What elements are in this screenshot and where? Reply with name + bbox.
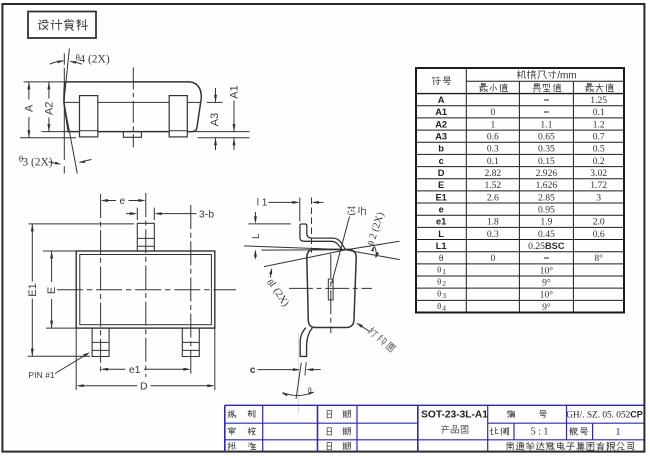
svg-text:SOT-23-3L-A1: SOT-23-3L-A1 (421, 409, 488, 420)
svg-text:2.6: 2.6 (487, 192, 499, 203)
title block row 3: approved / date / company (228, 442, 634, 450)
svg-text:4: 4 (442, 303, 446, 312)
svg-text:E1: E1 (27, 283, 39, 296)
svg-text:0.1: 0.1 (487, 156, 499, 167)
angle theta2 (2X) annotation (366, 210, 387, 258)
dimension e1 (101, 364, 191, 376)
svg-text:A1: A1 (435, 107, 447, 117)
svg-text:1: 1 (490, 119, 495, 130)
table header texts (433, 70, 614, 92)
angle theta4 (2X) annotation, top-left (50, 49, 110, 174)
angle theta1 (2X) annotation (264, 268, 291, 309)
svg-text:0.15: 0.15 (538, 156, 555, 167)
dimension L (244, 212, 345, 259)
svg-text:3.02: 3.02 (590, 168, 607, 179)
side view: lower lead profile (300, 328, 312, 357)
svg-text:E1: E1 (435, 192, 446, 202)
svg-text:L: L (251, 233, 262, 239)
svg-text:9°: 9° (542, 302, 551, 313)
svg-text:θ: θ (308, 386, 312, 395)
title block grid (225, 405, 644, 452)
angle theta3 (2X) annotation, bottom-left (19, 102, 92, 173)
side view: die (chip) (328, 279, 333, 300)
top view: body outline (double line) (76, 251, 215, 328)
svg-text:L: L (438, 229, 444, 239)
top view: lead 1 (bottom-left) (92, 328, 109, 356)
svg-text:2.85: 2.85 (538, 192, 555, 203)
svg-text:0: 0 (490, 253, 495, 264)
svg-text:A3: A3 (209, 113, 221, 126)
svg-text:θ: θ (437, 289, 441, 299)
side view: upper lead (pin 3 profile) (300, 224, 345, 250)
svg-text:2: 2 (442, 279, 446, 288)
svg-text:e1: e1 (436, 217, 446, 227)
title box 设计资料 (design data) (28, 12, 96, 39)
front view: package body outline (64, 82, 201, 132)
svg-text:–: – (544, 107, 550, 118)
front view: parting line (64, 101, 79, 103)
svg-text:θ: θ (439, 254, 444, 264)
svg-text:0.3: 0.3 (487, 229, 499, 240)
svg-text:1.25: 1.25 (590, 95, 607, 106)
svg-text:PIN #1: PIN #1 (28, 370, 54, 380)
svg-text:/mm: /mm (557, 70, 576, 81)
dimension A2 (body height) (44, 82, 56, 132)
svg-text:3-b: 3-b (199, 208, 214, 220)
svg-text:L1: L1 (436, 241, 447, 251)
part number cell SOT-23-3L-A1 产品图 (421, 409, 488, 433)
svg-text:e1: e1 (129, 364, 141, 376)
svg-text:1.1: 1.1 (540, 119, 552, 130)
front view: body-bottom extension lines (42, 131, 69, 133)
front view: seating plane lines (20, 137, 76, 139)
svg-text:–: – (544, 253, 550, 264)
svg-text:1.9: 1.9 (540, 217, 552, 228)
svg-text:0.6: 0.6 (487, 132, 499, 143)
svg-text:5 : 1: 5 : 1 (531, 427, 549, 438)
top view: centerlines (57, 193, 236, 377)
svg-text:e: e (120, 196, 126, 207)
svg-text:0: 0 (490, 107, 495, 118)
svg-text:1.8: 1.8 (487, 217, 499, 228)
front view: lead 2 (right) (169, 96, 187, 137)
dimension A1 (standoff, right) (229, 85, 241, 150)
svg-text:10°: 10° (540, 265, 554, 276)
dimension e (pitch) (101, 196, 146, 207)
svg-text:3 (2X): 3 (2X) (22, 157, 53, 169)
dimension A (overall height, left) (24, 82, 36, 138)
side view: body outline (307, 249, 356, 327)
svg-text:0.65: 0.65 (538, 132, 555, 143)
dimension 3-b (lead width) (126, 208, 214, 221)
svg-text:2.82: 2.82 (484, 168, 501, 179)
svg-text:GH/. SZ. 05. 052CP: GH/. SZ. 05. 052CP (566, 410, 643, 421)
svg-text:1.626: 1.626 (536, 180, 558, 191)
svg-text:b: b (438, 144, 444, 154)
svg-text:c: c (250, 365, 256, 376)
svg-text:3: 3 (596, 192, 601, 203)
PIN #1 label with leader arrow (28, 352, 90, 380)
svg-text:10°: 10° (540, 290, 554, 301)
svg-text:D: D (140, 380, 148, 392)
svg-text:1.52: 1.52 (484, 180, 501, 191)
svg-text:A2: A2 (44, 102, 56, 115)
table body rows (435, 95, 607, 313)
seating trace and theta1 reference lines (262, 249, 346, 251)
svg-text:0.5: 0.5 (593, 144, 605, 155)
front view: lead 1 (left) (80, 96, 188, 137)
svg-text:A1: A1 (229, 85, 241, 98)
svg-text:A3: A3 (435, 132, 447, 142)
svg-text:l 1: l 1 (257, 197, 268, 208)
svg-text:–: – (544, 95, 550, 106)
svg-text:0.2: 0.2 (593, 156, 605, 167)
svg-text:c: c (439, 156, 444, 166)
svg-text:A: A (438, 95, 445, 105)
title block row 2: checked / date / scale / version (228, 427, 620, 438)
dimension L1 (257, 197, 324, 252)
svg-text:4 (2X): 4 (2X) (79, 54, 110, 66)
chip label 芯片 with leader (332, 207, 366, 283)
theta2 reference lines (346, 241, 400, 250)
svg-text:0.3: 0.3 (487, 144, 499, 155)
svg-text:e: e (439, 205, 444, 215)
svg-text:1: 1 (615, 427, 620, 438)
svg-text:θ: θ (437, 264, 441, 274)
svg-text:θ: θ (437, 301, 441, 311)
svg-text:0.1: 0.1 (593, 107, 605, 118)
svg-text:A2: A2 (435, 119, 447, 129)
print face label 打印面 with leader (356, 323, 396, 353)
svg-text:0.7: 0.7 (593, 132, 605, 143)
svg-text:0.95: 0.95 (538, 205, 555, 216)
front view: middle lead (back row) (123, 132, 141, 138)
number cell 编号 + code (507, 410, 643, 421)
svg-text:2.926: 2.926 (536, 168, 558, 179)
front view: lead bend lines (80, 130, 98, 132)
angle theta annotation (bottom) (282, 386, 315, 396)
svg-text:8°: 8° (594, 253, 603, 264)
dimension E (body width) (46, 251, 58, 328)
dimension table frame (416, 68, 624, 313)
svg-text:0.45: 0.45 (538, 229, 555, 240)
lead tip construction lines + c dimension (250, 333, 321, 414)
svg-text:1.72: 1.72 (590, 180, 607, 191)
svg-text:0.35: 0.35 (538, 144, 555, 155)
dimension E1 (overall width) (27, 224, 39, 356)
svg-text:D: D (438, 168, 445, 178)
svg-text:3: 3 (442, 291, 446, 300)
svg-text:9°: 9° (542, 278, 551, 289)
svg-text:1: 1 (442, 267, 446, 276)
svg-text:1.2: 1.2 (593, 119, 605, 130)
svg-text:0.6: 0.6 (593, 229, 605, 240)
side view: centerlines (289, 287, 372, 289)
svg-text:A: A (24, 104, 36, 112)
dimension D (body length) (76, 328, 215, 392)
top view: pin 3 (top lead) (137, 223, 154, 251)
svg-text:0.25BSC: 0.25BSC (528, 241, 565, 252)
top view extension lines (29, 223, 135, 225)
svg-text:2.0: 2.0 (593, 217, 605, 228)
svg-text:E: E (438, 180, 444, 190)
dimension A3 (right, parting to seating) (207, 88, 223, 150)
front view: top extension line (24, 81, 66, 83)
front view: vertical centerline (132, 68, 134, 148)
title block row 1: drafted / date (228, 410, 350, 418)
top view: lead 2 (bottom-right) (182, 328, 199, 356)
svg-text:E: E (46, 287, 58, 294)
svg-text:θ: θ (437, 277, 441, 287)
